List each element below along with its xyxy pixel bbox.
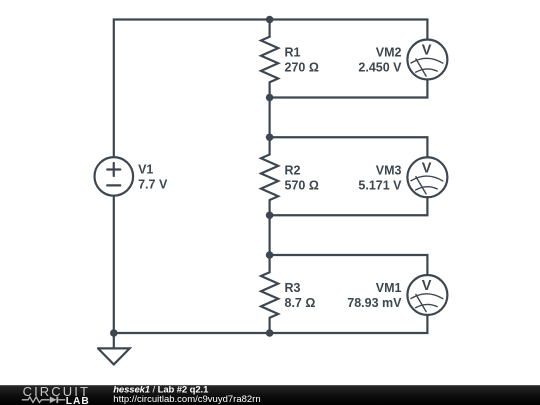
wire: left rail up, top net, VM2 top stub — [114, 20, 428, 157]
svg-text:570 Ω: 570 Ω — [285, 178, 319, 192]
resistor R1 — [261, 37, 278, 83]
svg-text:270 Ω: 270 Ω — [285, 61, 319, 75]
wire: loop2 bottom horizontal, VM3 bottom stub — [270, 197, 428, 215]
wire: middle column segment loop1 top — [269, 20, 271, 37]
svg-text:78.93 mV: 78.93 mV — [347, 296, 402, 310]
svg-text:2.450 V: 2.450 V — [358, 61, 402, 75]
svg-text:VM1: VM1 — [376, 281, 402, 295]
svg-text:VM2: VM2 — [376, 46, 402, 60]
voltage source V1 — [95, 157, 134, 196]
wire: loop2 top horizontal, VM3 top stub — [270, 137, 428, 157]
voltmeter VM2 — [407, 40, 447, 80]
node dot: ground junction — [110, 329, 118, 337]
ground — [98, 348, 130, 364]
node dot: R2 bottom junction — [266, 211, 274, 219]
svg-text:V1: V1 — [138, 162, 153, 176]
svg-text:8.7 Ω: 8.7 Ω — [285, 296, 316, 310]
svg-text:7.7 V: 7.7 V — [138, 177, 168, 191]
node dot: top of R1 column — [266, 16, 274, 24]
svg-text:LAB: LAB — [66, 396, 90, 405]
svg-text:V: V — [422, 43, 432, 59]
node dot: R3 top junction — [266, 251, 274, 259]
voltmeter VM1 — [407, 275, 447, 315]
svg-text:5.171 V: 5.171 V — [358, 178, 402, 192]
svg-text:VM3: VM3 — [376, 163, 402, 177]
node dot: R3 bottom junction — [266, 329, 274, 337]
svg-text:V: V — [422, 278, 432, 294]
wire: middle column loop2 bottom through loop3 top — [269, 200, 271, 272]
svg-text:V: V — [422, 160, 432, 176]
wire: left rail down, bottom net, VM1 bottom stub — [114, 196, 428, 333]
wire: middle column segment loop3 bottom — [269, 318, 271, 333]
svg-text:R3: R3 — [285, 281, 301, 295]
wire: ground stub — [113, 333, 115, 348]
CircuitLab logo symbol (resistor + diode) — [22, 397, 65, 404]
node dot: R1 bottom junction — [266, 94, 274, 102]
wire: loop3 top horizontal, VM1 top stub — [270, 255, 428, 275]
wire: loop1 bottom horizontal, VM2 bottom stub — [270, 80, 428, 98]
node dot: R2 top junction — [266, 133, 274, 141]
wire: middle column loop1 bottom through loop2 top — [269, 82, 271, 154]
resistor R2 — [261, 154, 278, 200]
footer bar — [0, 385, 540, 405]
svg-text:R1: R1 — [285, 46, 301, 60]
voltmeter VM3 — [407, 157, 447, 197]
resistor R3 — [261, 272, 278, 318]
svg-text:http://circuitlab.com/c9vuyd7r: http://circuitlab.com/c9vuyd7ra82rn — [113, 394, 260, 405]
svg-text:R2: R2 — [285, 163, 301, 177]
